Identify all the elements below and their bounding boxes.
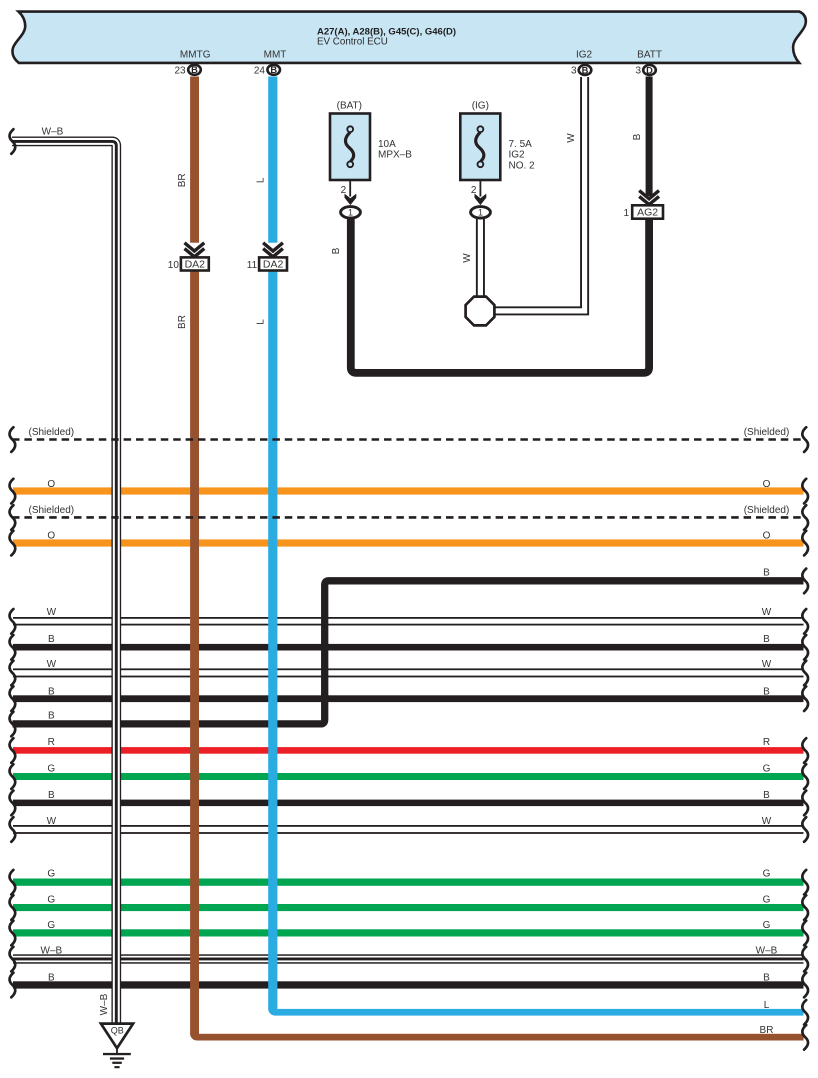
svg-text:W: W [762, 607, 772, 618]
svg-text:10A: 10A [378, 139, 396, 150]
svg-text:24: 24 [254, 65, 266, 76]
svg-text:B: B [191, 65, 198, 75]
svg-text:L: L [764, 1000, 770, 1011]
svg-text:2: 2 [471, 185, 477, 196]
svg-text:10: 10 [168, 260, 180, 271]
svg-text:W: W [462, 253, 473, 263]
svg-text:1: 1 [623, 208, 629, 219]
svg-text:(Shielded): (Shielded) [29, 427, 75, 438]
svg-text:G: G [763, 920, 771, 931]
svg-text:IG2: IG2 [576, 50, 593, 61]
svg-text:3: 3 [571, 66, 577, 77]
svg-text:MMT: MMT [264, 50, 287, 61]
svg-text:W–B: W–B [40, 946, 62, 957]
svg-text:W: W [762, 816, 772, 827]
svg-text:23: 23 [174, 65, 186, 76]
svg-text:W: W [47, 607, 57, 618]
svg-text:L: L [256, 319, 267, 325]
svg-text:B: B [48, 973, 55, 984]
svg-text:G: G [763, 868, 771, 879]
svg-text:2: 2 [341, 185, 347, 196]
svg-text:DA2: DA2 [263, 259, 284, 271]
svg-text:B: B [763, 686, 770, 697]
svg-text:G: G [763, 895, 771, 906]
svg-text:7. 5A: 7. 5A [509, 139, 533, 150]
svg-text:G: G [47, 764, 55, 775]
svg-text:QB: QB [111, 1026, 124, 1036]
svg-text:G: G [763, 764, 771, 775]
svg-text:D: D [646, 65, 653, 75]
svg-text:3: 3 [635, 66, 641, 77]
svg-text:B: B [331, 247, 342, 254]
svg-text:BR: BR [177, 173, 188, 187]
svg-text:B: B [48, 711, 55, 722]
svg-text:O: O [47, 530, 55, 541]
svg-text:(Shielded): (Shielded) [744, 427, 790, 438]
svg-text:G: G [47, 920, 55, 931]
svg-text:MPX–B: MPX–B [378, 150, 412, 161]
svg-text:B: B [763, 634, 770, 645]
svg-text:R: R [763, 737, 770, 748]
svg-text:O: O [47, 479, 55, 490]
svg-text:(Shielded): (Shielded) [29, 505, 75, 516]
svg-text:B: B [270, 65, 277, 75]
svg-text:B: B [582, 65, 589, 75]
svg-text:DA2: DA2 [185, 259, 206, 271]
svg-text:B: B [763, 568, 770, 579]
svg-text:R: R [48, 737, 55, 748]
svg-text:B: B [48, 790, 55, 801]
svg-text:W–B: W–B [756, 946, 778, 957]
svg-text:L: L [256, 177, 267, 183]
svg-text:W: W [47, 659, 57, 670]
svg-text:IG2: IG2 [509, 150, 526, 161]
svg-text:W–B: W–B [42, 127, 64, 138]
svg-text:(IG): (IG) [472, 101, 489, 112]
svg-text:W: W [566, 133, 577, 143]
svg-text:EV Control ECU: EV Control ECU [317, 37, 388, 48]
svg-text:1: 1 [478, 208, 483, 218]
svg-text:11: 11 [247, 260, 258, 271]
svg-text:BATT: BATT [637, 50, 662, 61]
svg-text:NO. 2: NO. 2 [509, 160, 536, 171]
svg-text:O: O [763, 530, 771, 541]
svg-text:W: W [47, 816, 57, 827]
svg-text:G: G [47, 868, 55, 879]
svg-text:W–B: W–B [99, 993, 110, 1015]
svg-text:BR: BR [760, 1025, 774, 1036]
svg-text:G: G [47, 895, 55, 906]
svg-text:(BAT): (BAT) [337, 101, 362, 112]
svg-text:AG2: AG2 [637, 207, 658, 219]
svg-text:O: O [763, 479, 771, 490]
svg-text:B: B [48, 634, 55, 645]
svg-text:W: W [762, 659, 772, 670]
svg-text:B: B [763, 973, 770, 984]
svg-text:B: B [48, 686, 55, 697]
svg-text:B: B [763, 790, 770, 801]
svg-text:MMTG: MMTG [180, 50, 211, 61]
svg-text:1: 1 [348, 208, 353, 218]
svg-text:B: B [632, 133, 643, 140]
svg-text:BR: BR [177, 315, 188, 329]
svg-text:(Shielded): (Shielded) [744, 505, 790, 516]
